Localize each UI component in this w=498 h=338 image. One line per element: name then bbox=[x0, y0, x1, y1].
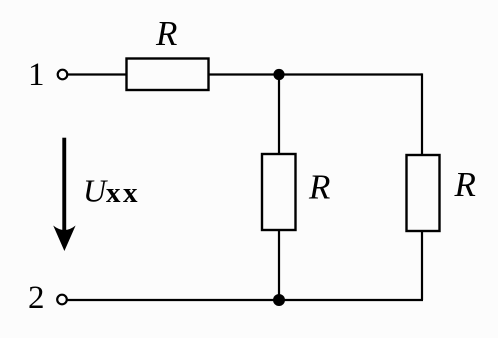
wire junction down to R2 bbox=[278, 75, 280, 155]
resistor R (middle) bbox=[262, 154, 296, 230]
wire top-right corner down to R3 bbox=[421, 73, 423, 155]
voltage arrow Uxx shaft bbox=[62, 138, 66, 238]
svg-text:R: R bbox=[308, 168, 330, 207]
node junction top bbox=[273, 69, 284, 80]
wire R2 down to bottom junction bbox=[278, 230, 280, 300]
svg-text:1: 1 bbox=[28, 57, 45, 93]
voltage arrow Uxx head bbox=[53, 226, 75, 252]
svg-text:2: 2 bbox=[28, 280, 45, 316]
resistor R (top) bbox=[127, 59, 209, 91]
svg-text:R: R bbox=[454, 165, 476, 204]
svg-text:xx: xx bbox=[106, 177, 140, 209]
wire terminal1 to R1 bbox=[68, 73, 127, 75]
resistor R (right) bbox=[407, 155, 440, 231]
svg-text:R: R bbox=[155, 14, 177, 53]
wire R3 down to bottom wire bbox=[421, 231, 423, 300]
svg-text:U: U bbox=[83, 173, 108, 209]
terminal 2 bbox=[57, 295, 67, 305]
bottom wire terminal2 to right branch bbox=[67, 299, 423, 301]
node junction bottom bbox=[273, 294, 285, 306]
wire R1 to top-right corner bbox=[209, 73, 423, 75]
terminal 1 bbox=[58, 70, 68, 80]
